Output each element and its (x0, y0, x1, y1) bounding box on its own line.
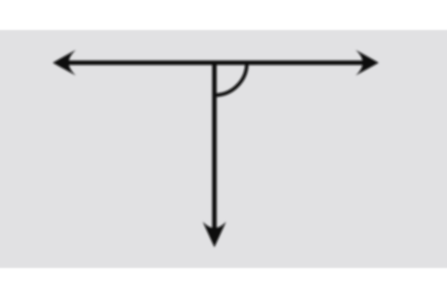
angle arc (214, 63, 247, 95)
arrowhead down (203, 222, 226, 248)
arrowhead right (356, 50, 379, 76)
arrowhead left (53, 50, 76, 76)
wire horizontal line (64, 60, 367, 65)
gray background panel (0, 30, 447, 268)
wire vertical line (212, 63, 217, 230)
